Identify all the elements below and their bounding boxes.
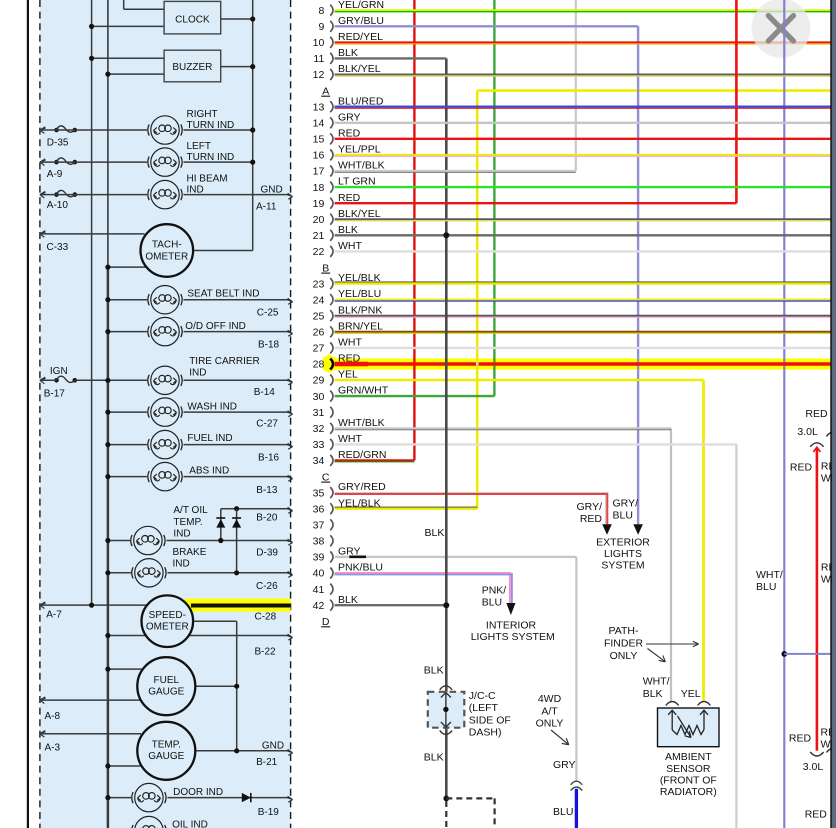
- svg-text:BLK: BLK: [425, 527, 445, 539]
- 4WD A/T ONLY note: [536, 693, 569, 745]
- wire WHT/BLK pin17 riser: [575, 0, 577, 171]
- svg-text:40: 40: [313, 568, 325, 580]
- clock box: [164, 1, 221, 34]
- pathfinder only note: [604, 625, 699, 662]
- wire bus2 to brake lamp: [105, 570, 131, 575]
- svg-text:FUEL IND: FUEL IND: [187, 433, 232, 444]
- cluster panel dashed border left: [39, 0, 41, 828]
- svg-text:22: 22: [313, 246, 325, 258]
- tachometer: [141, 224, 194, 277]
- pin 33 WHT: [313, 433, 363, 451]
- svg-text:WHT/: WHT/: [756, 569, 783, 581]
- svg-text:36: 36: [313, 503, 325, 515]
- connector B-17 IGN entry arrow: [40, 366, 77, 400]
- svg-text:IND: IND: [173, 558, 190, 569]
- svg-text:3.0L: 3.0L: [803, 761, 824, 773]
- wire RED/GRN pin34 riser: [413, 0, 415, 460]
- svg-text:GRY: GRY: [553, 759, 576, 771]
- svg-text:28: 28: [313, 359, 325, 371]
- connector A-9 entry arrow: [40, 158, 77, 180]
- svg-text:YEL/GRN: YEL/GRN: [338, 0, 384, 11]
- svg-text:10: 10: [313, 37, 325, 49]
- svg-text:PNK/: PNK/: [482, 585, 507, 597]
- svg-text:IGN: IGN: [50, 366, 68, 377]
- svg-text:A-9: A-9: [47, 169, 63, 180]
- wire fuel gauge to bus4: [195, 684, 239, 689]
- svg-text:18: 18: [313, 182, 325, 194]
- pin 34 RED/GRN: [313, 449, 387, 467]
- svg-text:RED: RED: [805, 808, 828, 820]
- wire bus2 to at oil temp lamp: [105, 538, 130, 543]
- node YEL riser crossing highlight: [476, 362, 479, 366]
- svg-text:PATH-: PATH-: [609, 625, 639, 637]
- wire pin 13 BLU/RED horizontal: [335, 107, 831, 109]
- pin 10 RED/YEL: [313, 31, 383, 49]
- svg-text:BRN/YEL: BRN/YEL: [338, 320, 383, 332]
- lamp symbol definition: [0, 0, 1, 1]
- connector A-3 entry arrow: [40, 731, 61, 754]
- pin 26 BRN/YEL: [313, 320, 383, 338]
- wire speedometer to bus4: [193, 620, 237, 622]
- svg-text:16: 16: [313, 150, 325, 162]
- svg-text:IND: IND: [189, 367, 206, 378]
- svg-text:(FRONT OF: (FRONT OF: [660, 775, 717, 787]
- svg-text:SYSTEM: SYSTEM: [601, 559, 644, 571]
- svg-text:GAUGE: GAUGE: [148, 687, 184, 698]
- svg-text:BLU: BLU: [613, 509, 633, 521]
- inline connector top of RED wire: [810, 433, 836, 447]
- svg-text:12: 12: [313, 69, 325, 81]
- wire pin 14 GRY horizontal: [335, 122, 831, 124]
- wire pin 21 BLK horizontal: [335, 234, 831, 236]
- pin 38 (no wire): [313, 535, 333, 547]
- wire pin 23 YEL/BLK horizontal: [335, 282, 831, 284]
- svg-text:23: 23: [313, 278, 325, 290]
- node pin42 junction: [443, 602, 449, 608]
- wire A-3 to temp gauge: [40, 733, 141, 735]
- wire pin 42 BLK horizontal: [335, 604, 447, 606]
- svg-text:SENSOR: SENSOR: [666, 763, 711, 775]
- connector A-8 entry arrow: [40, 697, 61, 722]
- wire RED pin19 riser: [735, 0, 738, 203]
- wire YEL/BLK pin36 riser: [476, 91, 479, 509]
- svg-text:A-3: A-3: [45, 743, 61, 754]
- wire pin 24 YEL/BLU horizontal: [335, 300, 831, 301]
- svg-text:LIGHTS SYSTEM: LIGHTS SYSTEM: [471, 631, 555, 643]
- wire RED engine harness vertical: [813, 447, 820, 751]
- lamp ABS IND with B-13 exit: [105, 462, 292, 495]
- wire BLK vertical lower segment pin21 to junction: [424, 235, 447, 798]
- wire BLK vertical upper segment pin11 to pin21: [445, 58, 448, 235]
- svg-text:TIRE CARRIER: TIRE CARRIER: [189, 356, 260, 367]
- svg-text:30: 30: [313, 391, 325, 403]
- inline connector above J/C-C: [440, 686, 452, 690]
- pin 22 WHT: [313, 240, 363, 258]
- svg-text:BLK: BLK: [338, 224, 358, 236]
- svg-text:C-28: C-28: [255, 611, 277, 622]
- wire tachometer to bus3: [193, 250, 253, 252]
- lamp BRAKE IND: [132, 547, 207, 587]
- pin 28 RED: [313, 353, 361, 371]
- svg-text:WHT/: WHT/: [643, 675, 670, 687]
- svg-text:GRY: GRY: [338, 111, 361, 123]
- svg-text:14: 14: [313, 118, 325, 130]
- svg-text:39: 39: [313, 552, 325, 564]
- svg-text:RADIATOR): RADIATOR): [660, 786, 717, 798]
- highlight band on pin 28 RED wire: [323, 355, 831, 373]
- wire PNK/BLU pin40 drop to interior lights: [482, 573, 516, 615]
- pin 39 GRY: [313, 546, 361, 564]
- wire pin 18 LT GRN horizontal: [335, 186, 831, 188]
- svg-text:OMETER: OMETER: [146, 622, 189, 633]
- svg-text:SPEED-: SPEED-: [149, 610, 186, 621]
- svg-text:33: 33: [313, 439, 325, 451]
- svg-text:C-33: C-33: [47, 242, 69, 253]
- wire WHT/BLU vertical: [756, 0, 784, 828]
- wire pin 9 GRY/BLU horizontal: [335, 25, 638, 27]
- inline connector bottom of RED wire: [810, 749, 836, 756]
- wire pin 11 BLK horizontal: [335, 57, 447, 59]
- wire right turn lamp to bus3: [184, 127, 256, 132]
- svg-text:SEAT BELT IND: SEAT BELT IND: [187, 288, 259, 299]
- svg-text:OMETER: OMETER: [145, 251, 188, 262]
- wire bus2 to temp gauge: [105, 763, 142, 768]
- wire bus2 to fuel gauge: [105, 667, 142, 672]
- pin 27 WHT: [313, 337, 363, 355]
- wire GRY pin39 drop: [553, 557, 576, 781]
- svg-text:ONLY: ONLY: [610, 650, 638, 662]
- wire WHT/BLK pin32 drop to ambient sensor: [643, 428, 701, 701]
- left page border line: [27, 0, 29, 828]
- bus GND (bus3): [252, 0, 254, 251]
- pin 30 GRN/WHT: [313, 385, 389, 403]
- svg-text:B-13: B-13: [256, 485, 278, 496]
- svg-text:TACH-: TACH-: [152, 240, 182, 251]
- svg-text:WHT/BLK: WHT/BLK: [338, 417, 385, 429]
- svg-text:SIDE OF: SIDE OF: [469, 714, 511, 726]
- svg-text:BLK: BLK: [424, 751, 444, 763]
- pin 13 BLU/RED: [313, 95, 384, 113]
- node BLK dashed branch: [443, 796, 494, 828]
- svg-text:BLK: BLK: [424, 664, 444, 676]
- svg-text:35: 35: [313, 487, 325, 499]
- svg-text:BUZZER: BUZZER: [172, 62, 212, 73]
- connector group label C: [321, 471, 330, 483]
- wire pin 26 BRN/YEL horizontal: [335, 332, 831, 333]
- wire D-35 to right turn lamp: [40, 129, 147, 131]
- wire GRN/WHT pin30 riser: [493, 0, 495, 396]
- svg-text:24: 24: [313, 294, 325, 306]
- svg-text:B-21: B-21: [256, 757, 278, 768]
- svg-text:32: 32: [313, 423, 325, 435]
- wire pin 36 YEL/BLK horizontal: [335, 507, 478, 509]
- wire YEL pin29 drop to ambient sensor: [702, 380, 705, 701]
- wire A-7 to speedometer: [40, 603, 148, 608]
- svg-text:21: 21: [313, 230, 325, 242]
- pin 32 WHT/BLK: [313, 417, 385, 435]
- pin 25 BLK/PNK: [313, 304, 383, 322]
- diode D3 door indicator: [242, 793, 251, 802]
- svg-text:PNK/BLU: PNK/BLU: [338, 562, 383, 574]
- wire left turn lamp to bus3: [184, 160, 256, 165]
- svg-text:J/C-C: J/C-C: [469, 690, 496, 702]
- exterior lights system label: [596, 536, 650, 571]
- pin 18 LT GRN: [313, 176, 376, 194]
- wire pin 35 GRY/RED horizontal: [335, 493, 607, 494]
- wire tire carrier lamp to B-14 exit: [184, 379, 293, 385]
- svg-text:BLU: BLU: [553, 806, 573, 818]
- svg-text:27: 27: [313, 343, 325, 355]
- svg-text:29: 29: [313, 375, 325, 387]
- svg-text:B-20: B-20: [256, 513, 278, 524]
- pin 40 PNK/BLU: [313, 562, 383, 580]
- connector group label D: [321, 616, 330, 628]
- svg-text:DASH): DASH): [469, 727, 502, 739]
- svg-text:RED: RED: [805, 408, 828, 420]
- svg-text:LT GRN: LT GRN: [338, 176, 376, 188]
- wire pin 28 RED horizontal: [335, 362, 831, 365]
- lamp SEAT BELT IND with C-25 exit: [105, 286, 292, 319]
- svg-text:C-25: C-25: [257, 307, 279, 318]
- temp gauge: [137, 722, 195, 780]
- svg-text:YEL/BLU: YEL/BLU: [338, 288, 381, 300]
- wire BLU to bottom edge: [553, 789, 576, 828]
- wire B-20 exit row: [221, 506, 293, 523]
- pin 29 YEL: [313, 369, 358, 387]
- svg-text:HI BEAM: HI BEAM: [187, 173, 228, 184]
- inline connector GRY to BLU: [571, 781, 583, 790]
- close button: [751, 0, 810, 58]
- inline connector below J/C-C: [440, 730, 452, 734]
- svg-text:GAUGE: GAUGE: [148, 751, 184, 762]
- pin 15 RED: [313, 127, 361, 145]
- wire B-22 exit row: [105, 633, 292, 658]
- pin 14 GRY: [313, 111, 361, 129]
- wire WHT/BLU vertical over close button: [783, 0, 785, 59]
- diode D1 branch: [216, 509, 225, 541]
- svg-text:RED/YEL: RED/YEL: [338, 31, 383, 43]
- junction block J/C-C: [428, 690, 511, 739]
- svg-text:BRAKE: BRAKE: [173, 547, 207, 558]
- svg-text:34: 34: [313, 455, 325, 467]
- labels around RED engine wire bottom: [789, 726, 836, 820]
- ambient sensor label: [660, 751, 717, 798]
- svg-text:A/T: A/T: [541, 705, 558, 717]
- interior lights system label: [471, 619, 555, 643]
- wire brake lamp to C-26 exit: [168, 570, 293, 592]
- connector D-35 entry arrow: [40, 126, 77, 148]
- bus CLOCK feed stub: [124, 0, 164, 9]
- svg-text:IND: IND: [187, 185, 204, 196]
- svg-text:OIL IND: OIL IND: [172, 820, 208, 828]
- svg-text:GND: GND: [262, 740, 284, 751]
- pin 17 WHT/BLK: [313, 160, 385, 178]
- wire pin 19 RED horizontal: [335, 202, 737, 204]
- svg-text:9: 9: [318, 21, 324, 33]
- bus gauge return (bus4): [236, 621, 238, 751]
- wire WHT pin33 drop: [735, 444, 737, 828]
- wire pin 25 BLK/PNK horizontal: [335, 316, 831, 317]
- svg-text:8: 8: [318, 5, 324, 17]
- inline connector ambient sensor left terminal: [666, 702, 679, 706]
- wire pin 32 WHT/BLK horizontal: [335, 428, 671, 429]
- wire buzzer to bus3: [221, 64, 256, 69]
- wire IGN to bus2 and tire carrier lamp: [40, 378, 147, 383]
- wire at oil temp lamp to D-39 exit: [167, 538, 293, 559]
- pin 16 YEL/PPL: [313, 144, 381, 162]
- svg-text:LIGHTS: LIGHTS: [604, 548, 642, 560]
- pin 9 GRY/BLU: [318, 15, 383, 33]
- svg-text:EXTERIOR: EXTERIOR: [596, 536, 650, 548]
- wire A-8 to fuel gauge: [40, 699, 141, 701]
- cluster panel dashed border right: [290, 0, 292, 828]
- ambient sensor: [658, 708, 720, 747]
- pin 8 YEL/GRN: [318, 0, 384, 17]
- svg-text:BLK: BLK: [643, 688, 663, 700]
- svg-text:19: 19: [313, 198, 325, 210]
- svg-text:AMBIENT: AMBIENT: [665, 751, 712, 763]
- svg-text:BLU: BLU: [482, 596, 502, 608]
- svg-text:C-27: C-27: [256, 419, 278, 430]
- svg-text:DOOR IND: DOOR IND: [173, 787, 223, 798]
- svg-text:A-8: A-8: [45, 711, 61, 722]
- svg-text:RED: RED: [338, 127, 361, 139]
- fuel gauge: [137, 657, 195, 715]
- svg-text:TEMP.: TEMP.: [152, 739, 181, 750]
- wire GRY/RED pin35 drop to exterior lights: [577, 493, 612, 535]
- wire buzzer feed from bus2: [105, 72, 164, 77]
- svg-text:BLK/YEL: BLK/YEL: [338, 63, 381, 75]
- svg-text:D-39: D-39: [256, 548, 278, 559]
- svg-text:13: 13: [313, 101, 325, 113]
- svg-text:42: 42: [313, 600, 325, 612]
- wire pin 34 RED/GRN horizontal: [335, 460, 415, 462]
- wire pin 39 GRY horizontal: [335, 556, 577, 559]
- svg-text:TURN IND: TURN IND: [187, 120, 235, 131]
- pin 42 BLK: [313, 594, 358, 612]
- svg-text:LEFT: LEFT: [187, 141, 211, 152]
- svg-text:11: 11: [313, 53, 324, 65]
- wire pin 16 YEL/PPL horizontal: [335, 155, 831, 156]
- bus IGN (bus2): [107, 0, 109, 828]
- node WHT/BLU branch: [781, 651, 830, 657]
- lamp TIRE CARRIER IND: [148, 356, 275, 398]
- svg-text:GRY/RED: GRY/RED: [338, 481, 386, 493]
- inline connector ambient sensor right terminal: [698, 702, 711, 706]
- svg-text:BLK/YEL: BLK/YEL: [338, 208, 381, 220]
- svg-text:GND: GND: [261, 184, 283, 195]
- lamp LEFT TURN IND: [148, 141, 234, 176]
- svg-text:3.0L: 3.0L: [797, 426, 818, 438]
- svg-text:41: 41: [313, 584, 325, 596]
- labels around RED engine wire top: [790, 408, 836, 484]
- wire clock to bus3: [221, 16, 256, 21]
- pin 23 YEL/BLK: [313, 272, 381, 290]
- connector A-11 GND exit arrow: [256, 184, 293, 212]
- wire pin 17 WHT/BLK horizontal: [335, 171, 576, 172]
- right panel edge strip: [830, 0, 836, 828]
- wire pin 29 YEL horizontal: [335, 379, 704, 382]
- pin 20 BLK/YEL: [313, 208, 381, 226]
- svg-text:38: 38: [313, 536, 325, 548]
- wire pin 27 WHT horizontal: [335, 347, 831, 349]
- labels RED WHT mid fragment: [821, 561, 836, 585]
- svg-text:BLU: BLU: [756, 581, 776, 593]
- pin 21 BLK: [313, 224, 358, 242]
- buzzer box: [164, 50, 221, 82]
- speedometer: [142, 595, 194, 647]
- wire GRY/BLU pin9 drop to exterior lights: [613, 26, 643, 535]
- wire buzzer feed from bus1: [89, 56, 164, 61]
- svg-text:B-14: B-14: [254, 387, 276, 398]
- svg-text:37: 37: [313, 520, 325, 532]
- svg-text:BLK/PNK: BLK/PNK: [338, 304, 382, 316]
- wire bus2 to tachometer: [105, 265, 145, 270]
- svg-text:ABS IND: ABS IND: [189, 466, 229, 477]
- svg-text:O/D OFF IND: O/D OFF IND: [185, 321, 246, 332]
- svg-text:A-11: A-11: [256, 202, 277, 213]
- svg-text:25: 25: [313, 310, 325, 322]
- svg-text:D-35: D-35: [47, 137, 69, 148]
- svg-text:IND: IND: [173, 529, 190, 540]
- wire bus2 to door lamp: [105, 795, 131, 800]
- wire C-33 to tachometer: [40, 233, 145, 235]
- wire pin 33 WHT horizontal: [335, 443, 737, 445]
- pin 31 (no wire): [313, 407, 333, 419]
- svg-text:A-10: A-10: [47, 200, 69, 211]
- svg-text:CLOCK: CLOCK: [175, 15, 210, 26]
- lamp FUEL IND with B-16 exit: [105, 430, 292, 463]
- svg-text:GRY/: GRY/: [613, 498, 639, 510]
- svg-text:26: 26: [313, 327, 325, 339]
- wire pin 15 RED horizontal: [335, 138, 831, 140]
- lamp DOOR IND: [132, 783, 223, 811]
- pin 12 BLK/YEL: [313, 63, 381, 81]
- svg-text:TURN IND: TURN IND: [187, 152, 235, 163]
- svg-text:TEMP.: TEMP.: [173, 517, 202, 528]
- svg-text:GRY/: GRY/: [577, 501, 603, 513]
- lamp HI BEAM IND: [148, 173, 228, 208]
- lamp RIGHT TURN IND: [148, 109, 234, 144]
- svg-text:(LEFT: (LEFT: [469, 702, 499, 714]
- wire clock feed from bus1: [89, 24, 164, 29]
- wire A-9 to left turn lamp: [40, 161, 147, 163]
- wire pin 22 WHT horizontal: [335, 250, 831, 252]
- connector group label B: [321, 262, 330, 274]
- svg-text:WASH IND: WASH IND: [187, 401, 237, 412]
- wire YEL/BLK pin36 top horizontal: [477, 89, 831, 92]
- svg-text:RIGHT: RIGHT: [187, 109, 218, 120]
- svg-text:INTERIOR: INTERIOR: [486, 619, 537, 631]
- svg-text:YEL/PPL: YEL/PPL: [338, 144, 381, 156]
- svg-text:WHT/BLK: WHT/BLK: [338, 160, 385, 172]
- highlighted wire C-28 speedometer output: [185, 599, 291, 623]
- lamp O/D OFF IND with B-18 exit: [105, 317, 292, 350]
- wire temp gauge to GND B-21 exit: [195, 740, 292, 768]
- svg-text:ONLY: ONLY: [536, 718, 564, 730]
- svg-text:A-7: A-7: [46, 610, 62, 621]
- pin 35 GRY/RED: [313, 481, 386, 499]
- wire A-10 to hi beam lamp: [40, 194, 147, 196]
- svg-text:20: 20: [313, 214, 325, 226]
- wire hi beam lamp to GND A-11: [184, 194, 289, 196]
- svg-text:A/T OIL: A/T OIL: [173, 505, 208, 516]
- svg-text:31: 31: [313, 407, 325, 419]
- svg-text:B-19: B-19: [258, 807, 280, 818]
- connector C-33 entry arrow: [40, 231, 69, 253]
- wire pin 8 YEL/GRN horizontal: [335, 10, 831, 12]
- pin 37 (no wire): [313, 519, 333, 531]
